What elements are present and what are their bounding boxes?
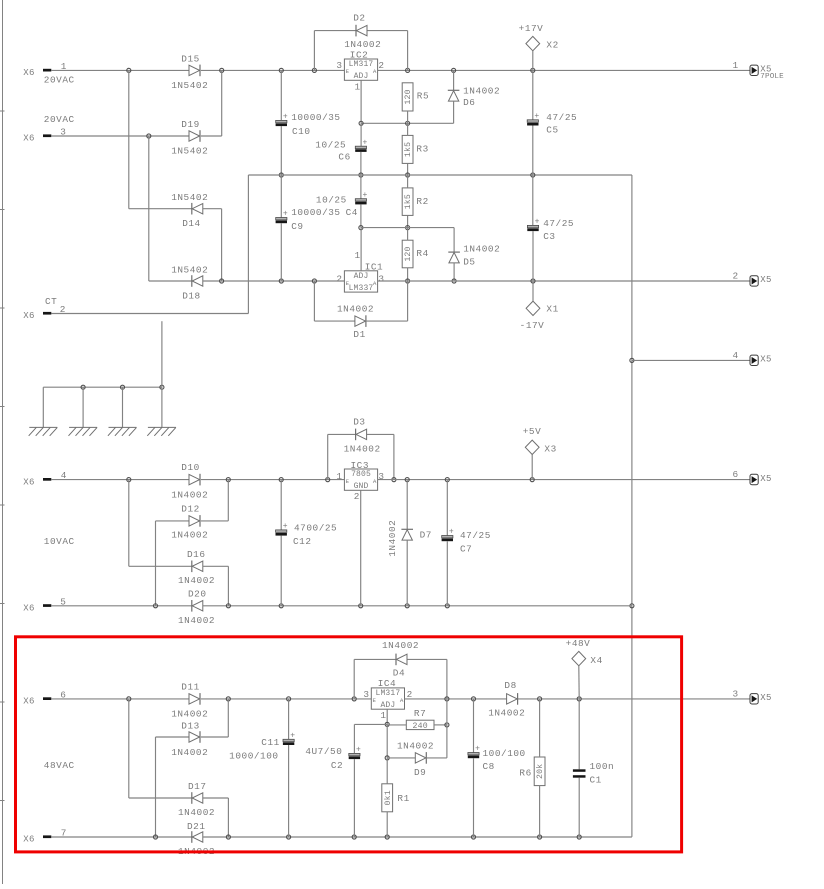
diode D8 xyxy=(488,680,525,719)
wire D4 loop left xyxy=(353,659,355,699)
svg-text:2: 2 xyxy=(407,689,413,700)
svg-text:1N4002: 1N4002 xyxy=(387,520,398,557)
supply X3 xyxy=(523,426,557,454)
junction xyxy=(359,226,363,230)
svg-text:IC1: IC1 xyxy=(365,262,384,273)
supply X1 xyxy=(520,301,559,331)
wire X2 down xyxy=(532,51,534,71)
wire adj rail xyxy=(361,122,454,124)
svg-text:47/25: 47/25 xyxy=(546,112,577,123)
diode D11 xyxy=(171,681,208,719)
wire D5 down xyxy=(453,263,455,281)
capacitor C7 xyxy=(442,528,491,555)
wire D2 loop left xyxy=(313,31,315,71)
wire R6 down xyxy=(539,786,541,837)
wire to R1 xyxy=(386,758,388,784)
svg-text:10000/35: 10000/35 xyxy=(291,207,340,218)
wire C2 down xyxy=(353,759,355,837)
wire D1 loop left xyxy=(313,281,315,321)
capacitor C2 xyxy=(305,746,361,771)
junction xyxy=(226,697,230,701)
wire D16 drop xyxy=(227,566,229,606)
junction xyxy=(279,279,283,283)
svg-text:20k: 20k xyxy=(535,764,545,779)
junction xyxy=(287,835,291,839)
diode D6 xyxy=(448,85,500,108)
junction xyxy=(385,835,389,839)
svg-text:1N4002: 1N4002 xyxy=(463,85,500,96)
svg-text:240: 240 xyxy=(412,722,427,731)
junction xyxy=(352,835,356,839)
wire C1 down xyxy=(578,778,580,837)
connector X6 pin 1 xyxy=(23,61,67,78)
diode D20 xyxy=(178,588,215,626)
svg-text:1N4002: 1N4002 xyxy=(463,243,500,254)
svg-text:D15: D15 xyxy=(181,54,200,65)
junction xyxy=(153,604,157,608)
junction xyxy=(287,697,291,701)
svg-text:D21: D21 xyxy=(187,821,206,832)
wire to D6 xyxy=(453,70,455,90)
resistor R1 xyxy=(382,784,410,812)
wire +17V rail xyxy=(201,69,750,71)
svg-text:100/100: 100/100 xyxy=(483,748,526,759)
junction xyxy=(147,134,151,138)
junction xyxy=(538,697,542,701)
junction xyxy=(127,697,131,701)
wire C7 down xyxy=(446,541,448,606)
junction xyxy=(577,697,581,701)
svg-text:X5: X5 xyxy=(760,275,771,285)
wire to C4 xyxy=(360,175,362,199)
svg-text:IC4: IC4 xyxy=(378,678,397,689)
svg-text:1k5: 1k5 xyxy=(403,142,413,157)
capacitor C1 xyxy=(573,761,614,785)
wire X6-6 to D11 xyxy=(51,698,189,700)
junction xyxy=(226,604,230,608)
junction xyxy=(452,279,456,283)
svg-text:D8: D8 xyxy=(504,680,516,691)
svg-text:1N4002: 1N4002 xyxy=(344,444,381,455)
junction xyxy=(359,604,363,608)
svg-text:D17: D17 xyxy=(188,781,207,792)
wire adj down xyxy=(386,724,388,758)
svg-text:2: 2 xyxy=(336,273,342,284)
svg-text:C6: C6 xyxy=(338,151,350,162)
svg-text:+: + xyxy=(534,112,539,121)
ground xyxy=(69,427,98,435)
svg-text:GND: GND xyxy=(354,482,369,491)
svg-text:D13: D13 xyxy=(181,720,200,731)
supply X2 xyxy=(519,23,559,51)
junction xyxy=(445,723,449,727)
wire IC3 gnd xyxy=(360,490,362,606)
wire D2 loop right xyxy=(407,31,409,71)
junction xyxy=(127,478,131,482)
wire D19 riser xyxy=(221,70,223,136)
regulator IC1 xyxy=(336,250,384,293)
wire to C1 xyxy=(578,699,580,769)
wire to D14 xyxy=(129,208,192,210)
svg-text:LM317: LM317 xyxy=(349,60,374,69)
svg-text:1k5: 1k5 xyxy=(403,194,413,209)
svg-text:X6: X6 xyxy=(23,311,34,321)
wire down to D17 xyxy=(128,699,130,798)
wire to C8 xyxy=(473,699,475,753)
svg-text:ADJ: ADJ xyxy=(380,701,395,710)
wire down to D18 xyxy=(148,136,150,281)
svg-text:1N4002: 1N4002 xyxy=(337,303,374,314)
wire D3 loop right xyxy=(393,434,395,479)
svg-text:C4: C4 xyxy=(346,207,358,218)
regulator IC4 xyxy=(363,678,412,721)
svg-text:E: E xyxy=(346,280,350,287)
diode D9 xyxy=(397,740,434,778)
svg-text:1N4002: 1N4002 xyxy=(171,709,208,720)
svg-text:X5: X5 xyxy=(760,355,771,365)
junction xyxy=(406,121,410,125)
wire D3 loop left xyxy=(327,434,329,479)
svg-text:-17V: -17V xyxy=(520,320,545,331)
wire C9 down xyxy=(280,223,282,281)
svg-text:+: + xyxy=(283,522,288,531)
junction xyxy=(312,68,316,72)
wire C8 down xyxy=(473,758,475,837)
svg-text:D7: D7 xyxy=(420,529,432,540)
capacitor C8 xyxy=(468,745,526,772)
svg-text:48VAC: 48VAC xyxy=(44,760,75,771)
wire 48V rail in xyxy=(201,698,371,700)
svg-text:1N4002: 1N4002 xyxy=(171,747,208,758)
svg-text:C8: C8 xyxy=(483,761,495,772)
svg-text:+: + xyxy=(283,113,288,122)
connector X6 pin 3 xyxy=(23,127,66,144)
wire C5 down xyxy=(532,126,534,176)
svg-text:D2: D2 xyxy=(353,13,365,24)
svg-text:2: 2 xyxy=(60,304,66,315)
connector X5 pin 4 xyxy=(733,350,772,366)
wire D13 out xyxy=(201,736,228,738)
junction xyxy=(279,68,283,72)
wire D13 drop xyxy=(155,737,157,837)
wire C4 down xyxy=(360,204,362,227)
wire to C10 xyxy=(280,70,282,120)
junction xyxy=(445,604,449,608)
svg-text:4U7/50: 4U7/50 xyxy=(305,746,342,757)
svg-text:1N5402: 1N5402 xyxy=(171,264,208,275)
svg-text:C7: C7 xyxy=(460,543,472,554)
diode D5 xyxy=(448,243,500,267)
svg-text:R7: R7 xyxy=(414,708,426,719)
wire to R6 xyxy=(539,699,541,757)
svg-text:LM317: LM317 xyxy=(376,689,401,698)
junction xyxy=(471,697,475,701)
svg-text:X4: X4 xyxy=(590,655,602,666)
svg-text:E: E xyxy=(346,478,350,485)
svg-text:2: 2 xyxy=(733,270,739,281)
wire C12 down xyxy=(280,536,282,606)
connector X6 pin 2 xyxy=(23,304,66,321)
svg-text:1N4002: 1N4002 xyxy=(397,740,434,751)
svg-text:C9: C9 xyxy=(291,221,303,232)
svg-text:C11: C11 xyxy=(261,737,280,748)
wire D17 out xyxy=(203,797,229,799)
svg-text:3: 3 xyxy=(378,273,384,284)
junction xyxy=(406,226,410,230)
wire C11 down xyxy=(288,745,290,837)
svg-text:+: + xyxy=(283,210,288,219)
svg-text:1: 1 xyxy=(733,60,739,71)
svg-text:LM337: LM337 xyxy=(349,284,374,293)
svg-text:X6: X6 xyxy=(23,68,34,78)
capacitor C3 xyxy=(527,218,574,242)
diode D2 xyxy=(344,13,381,51)
svg-text:R5: R5 xyxy=(417,91,429,102)
wire to C6 xyxy=(360,123,362,146)
diode D19 xyxy=(171,119,208,156)
svg-text:R3: R3 xyxy=(416,144,428,155)
wire IC4 adj xyxy=(386,709,388,724)
svg-text:1N4002: 1N4002 xyxy=(382,640,419,651)
svg-text:0k1: 0k1 xyxy=(383,790,393,805)
wire ground drop xyxy=(82,387,84,427)
junction xyxy=(220,68,224,72)
svg-text:IC3: IC3 xyxy=(351,460,370,471)
wire 5V bottom rail xyxy=(203,605,632,607)
highlight box xyxy=(16,637,682,852)
junction xyxy=(352,697,356,701)
wire to C7 xyxy=(446,480,448,536)
svg-text:+: + xyxy=(363,191,368,200)
junction xyxy=(406,279,410,283)
svg-text:6: 6 xyxy=(733,469,739,480)
svg-text:C2: C2 xyxy=(331,760,343,771)
wire CT riser xyxy=(247,175,249,314)
svg-text:E: E xyxy=(373,697,377,704)
diode D13 xyxy=(171,720,208,758)
resistor R3 xyxy=(402,135,429,163)
junction xyxy=(630,604,634,608)
svg-text:10000/35: 10000/35 xyxy=(291,112,340,123)
svg-text:D16: D16 xyxy=(187,549,206,560)
resistor R4 xyxy=(402,240,429,268)
svg-text:1N5402: 1N5402 xyxy=(171,192,208,203)
svg-text:2: 2 xyxy=(378,60,384,71)
svg-text:1N4002: 1N4002 xyxy=(171,489,208,500)
wire D13 riser xyxy=(227,699,229,737)
wire to R2 xyxy=(407,175,409,188)
wire D1 loop right xyxy=(407,281,409,321)
connector X6 pin 6 xyxy=(23,690,66,707)
capacitor C6 xyxy=(315,138,368,162)
wire X6-1 to D15 xyxy=(51,69,189,71)
wire to R7 xyxy=(387,724,406,726)
diode D17 xyxy=(178,781,215,818)
wire D1 out xyxy=(366,320,408,322)
ground xyxy=(29,427,58,435)
wire D17 drop xyxy=(227,798,229,837)
wire to D9 xyxy=(387,757,415,759)
junction xyxy=(385,722,389,726)
svg-text:1N4002: 1N4002 xyxy=(178,615,215,626)
connector X5 pin 1 xyxy=(733,60,785,81)
svg-text:120: 120 xyxy=(404,89,413,104)
wire to X5-4 xyxy=(632,359,750,361)
junction xyxy=(226,835,230,839)
wire C10 down xyxy=(280,126,282,175)
wire D4 loop right xyxy=(446,659,448,699)
svg-text:A: A xyxy=(373,478,377,485)
svg-text:C1: C1 xyxy=(590,774,602,785)
ground xyxy=(108,427,137,435)
wire to D4 xyxy=(354,658,396,660)
svg-text:+17V: +17V xyxy=(519,23,544,34)
svg-text:+5V: +5V xyxy=(523,426,542,437)
regulator IC3 xyxy=(336,460,384,502)
diode D3 xyxy=(344,416,381,454)
svg-text:C10: C10 xyxy=(292,126,311,137)
supply X4 xyxy=(566,638,603,666)
svg-text:D5: D5 xyxy=(463,257,475,268)
resistor R2 xyxy=(402,188,429,216)
wire 48V bottom rail xyxy=(203,836,632,838)
svg-text:X6: X6 xyxy=(23,835,34,845)
svg-text:1N4002: 1N4002 xyxy=(488,707,525,718)
wire to C12 xyxy=(280,480,282,530)
wire X4 down xyxy=(578,666,580,699)
wire D7 down xyxy=(406,540,408,606)
svg-text:X1: X1 xyxy=(546,304,558,315)
junction xyxy=(452,68,456,72)
svg-text:D11: D11 xyxy=(181,681,200,692)
wire to C2 xyxy=(353,724,355,753)
diode D10 xyxy=(171,462,208,500)
diode D12 xyxy=(171,504,208,541)
wire right bus xyxy=(631,175,633,837)
wire R5-R3 xyxy=(407,111,409,135)
wire to D18 xyxy=(149,280,192,282)
svg-text:X6: X6 xyxy=(23,134,34,144)
svg-text:1: 1 xyxy=(355,81,361,92)
wire D6 down xyxy=(453,101,455,123)
junction xyxy=(385,756,389,760)
ground xyxy=(147,427,176,435)
svg-text:X2: X2 xyxy=(546,39,558,50)
wire D12 out xyxy=(201,520,228,522)
junction xyxy=(226,478,230,482)
capacitor C12 xyxy=(276,522,338,547)
junction xyxy=(220,279,224,283)
svg-text:1N5402: 1N5402 xyxy=(171,80,208,91)
wire 5V out rail xyxy=(378,479,750,481)
junction xyxy=(279,173,283,177)
svg-text:C5: C5 xyxy=(546,124,558,135)
wire X3 down xyxy=(531,455,533,480)
junction xyxy=(630,358,634,362)
wire ground drop xyxy=(42,387,44,427)
svg-text:X3: X3 xyxy=(544,444,556,455)
svg-text:+: + xyxy=(356,746,361,755)
capacitor C10 xyxy=(276,112,341,137)
svg-text:47/25: 47/25 xyxy=(543,218,574,229)
junction xyxy=(127,68,131,72)
svg-text:IC2: IC2 xyxy=(350,50,369,61)
connector X6 pin 7 xyxy=(23,828,67,845)
frame border xyxy=(0,0,5,884)
wire down to D14 xyxy=(128,70,130,208)
svg-text:1000/100: 1000/100 xyxy=(229,750,278,761)
svg-text:3: 3 xyxy=(363,689,369,700)
resistor R7 xyxy=(406,708,434,731)
svg-text:ADJ: ADJ xyxy=(354,72,369,81)
svg-text:CT: CT xyxy=(45,296,57,307)
wire C4 rail xyxy=(361,227,454,229)
svg-text:10/25: 10/25 xyxy=(316,194,347,205)
wire to D5 xyxy=(453,228,455,253)
junction xyxy=(538,835,542,839)
junction xyxy=(445,697,449,701)
svg-text:X5: X5 xyxy=(760,474,771,484)
wire to D2 xyxy=(314,30,356,32)
wire D19 out xyxy=(201,135,222,137)
svg-text:+: + xyxy=(363,138,368,147)
diode D18 xyxy=(171,264,208,301)
junction xyxy=(406,68,410,72)
svg-text:R6: R6 xyxy=(519,768,531,779)
svg-text:R4: R4 xyxy=(416,248,428,259)
diode D21 xyxy=(178,821,215,857)
wire to C9 xyxy=(280,175,282,218)
svg-text:20VAC: 20VAC xyxy=(44,75,75,86)
svg-text:D10: D10 xyxy=(181,462,200,473)
wire adj to C2 xyxy=(354,723,387,725)
wire D12 drop xyxy=(155,521,157,606)
wire to D16 xyxy=(129,565,192,567)
wire D14 out xyxy=(203,208,222,210)
svg-text:1: 1 xyxy=(355,250,361,261)
wire to D12 xyxy=(156,520,190,522)
svg-text:1N4002: 1N4002 xyxy=(178,575,215,586)
svg-text:D4: D4 xyxy=(393,668,405,679)
svg-text:3: 3 xyxy=(733,688,739,699)
wire to R4 xyxy=(407,228,409,241)
svg-text:R2: R2 xyxy=(416,196,428,207)
diode D1 xyxy=(337,303,374,340)
svg-text:7POLE: 7POLE xyxy=(760,73,784,81)
junction xyxy=(392,478,396,482)
svg-text:10VAC: 10VAC xyxy=(44,536,75,547)
junction xyxy=(445,478,449,482)
diode D16 xyxy=(178,549,215,586)
svg-text:X6: X6 xyxy=(23,477,34,487)
resistor R5 xyxy=(402,83,429,111)
connector X5 pin 2 xyxy=(733,270,772,286)
junction xyxy=(279,604,283,608)
svg-text:10/25: 10/25 xyxy=(315,139,346,150)
wire R2 down xyxy=(407,215,409,227)
junction xyxy=(531,173,535,177)
junction xyxy=(405,604,409,608)
wire to D7 xyxy=(406,480,408,530)
wire D4 out xyxy=(407,658,447,660)
junction xyxy=(81,385,85,389)
junction xyxy=(359,173,363,177)
junction xyxy=(312,279,316,283)
junction xyxy=(531,68,535,72)
junction xyxy=(153,835,157,839)
capacitor C9 xyxy=(276,207,341,232)
svg-text:C12: C12 xyxy=(293,536,312,547)
